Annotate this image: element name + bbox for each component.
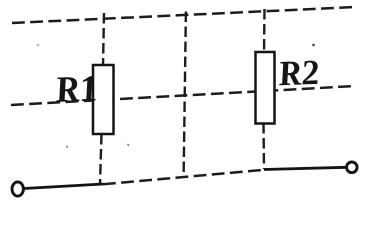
svg-text:R2: R2 [274, 52, 321, 93]
svg-text:R1: R1 [51, 69, 100, 111]
